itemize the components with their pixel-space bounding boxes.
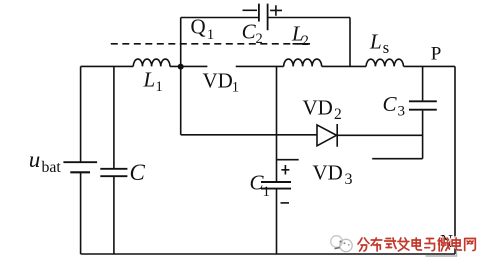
svg-text:P: P: [431, 43, 442, 64]
label: C1 minus sign: [281, 202, 290, 204]
svg-text:C: C: [383, 92, 398, 116]
svg-text:3: 3: [345, 171, 353, 188]
svg-text:1: 1: [263, 184, 271, 200]
wire: right outer vertical P to N: [454, 66, 456, 254]
wire: C2 branch top right: [268, 17, 350, 19]
svg-text:u: u: [29, 147, 41, 172]
svg-text:1: 1: [207, 27, 215, 43]
wire: node A up to C2 branch: [180, 18, 182, 67]
wire: L2 to Ls: [322, 65, 367, 67]
label: C2 minus sign: [243, 9, 258, 11]
frame shadow bottom-right: [426, 247, 458, 257]
wire: L1 to node A: [170, 65, 208, 67]
wire: VD2 cathode to C3 leg: [337, 134, 422, 136]
svg-text:2: 2: [256, 31, 263, 47]
node A junction dot: [178, 64, 184, 70]
wire: VD3 left stub: [277, 159, 299, 161]
svg-text:L: L: [369, 29, 382, 53]
svg-text:s: s: [383, 38, 389, 57]
wire: Ls to node P corner: [404, 65, 456, 67]
battery ubat negative plate: [70, 171, 90, 173]
svg-text:2: 2: [334, 106, 342, 123]
svg-text:Q: Q: [191, 15, 206, 39]
wire: VD3 right stub: [372, 158, 422, 160]
capacitor C3: [409, 101, 437, 109]
wire: C3 bottom lead down to VD3 jog: [422, 111, 424, 159]
svg-text:bat: bat: [42, 159, 62, 176]
wire: battery bottom lead: [80, 172, 82, 254]
wire: C2 branch top left: [181, 17, 259, 19]
svg-text:1: 1: [156, 79, 163, 95]
wire: bottom return: [81, 253, 455, 255]
wire: battery top to L1: [81, 65, 134, 67]
watermark logo: [331, 236, 352, 252]
wire: C1 bottom lead: [276, 189, 278, 254]
inductor L2: [284, 59, 322, 66]
inductor L1: [133, 59, 170, 66]
svg-text:C: C: [130, 160, 146, 185]
svg-text:VD: VD: [303, 96, 333, 120]
wire: solid dash segment under L2 label: [293, 43, 311, 45]
capacitor C: [100, 169, 127, 176]
wire: C2 branch right vertical: [349, 18, 351, 67]
svg-text:VD: VD: [203, 68, 233, 92]
capacitor C1: [261, 182, 291, 189]
wire: VD2 anode rail: [181, 134, 317, 136]
svg-text:VD: VD: [313, 161, 343, 185]
battery ubat positive plate: [63, 161, 97, 163]
wire: C3 top lead: [422, 66, 424, 100]
wire: capacitor C top lead: [113, 66, 115, 168]
wire: battery top lead: [80, 66, 82, 162]
svg-text:3: 3: [398, 103, 406, 119]
label: C1 plus sign: [281, 165, 289, 175]
wire: node A down: [180, 66, 182, 134]
svg-text:1: 1: [232, 80, 239, 96]
wire: node A right segment (VD1 open gap after): [236, 65, 284, 67]
inductor Ls: [366, 59, 403, 66]
diode VD2: [317, 124, 337, 147]
label: C2 plus sign: [270, 5, 282, 16]
svg-text:2: 2: [302, 33, 309, 49]
wire: branch B vertical (to C1): [276, 66, 278, 182]
svg-text:C: C: [242, 20, 257, 44]
svg-text:L: L: [143, 68, 156, 92]
wire: capacitor C bottom lead: [113, 176, 115, 254]
dashed mode boundary line: [111, 43, 310, 45]
capacitor C2: [259, 4, 268, 31]
